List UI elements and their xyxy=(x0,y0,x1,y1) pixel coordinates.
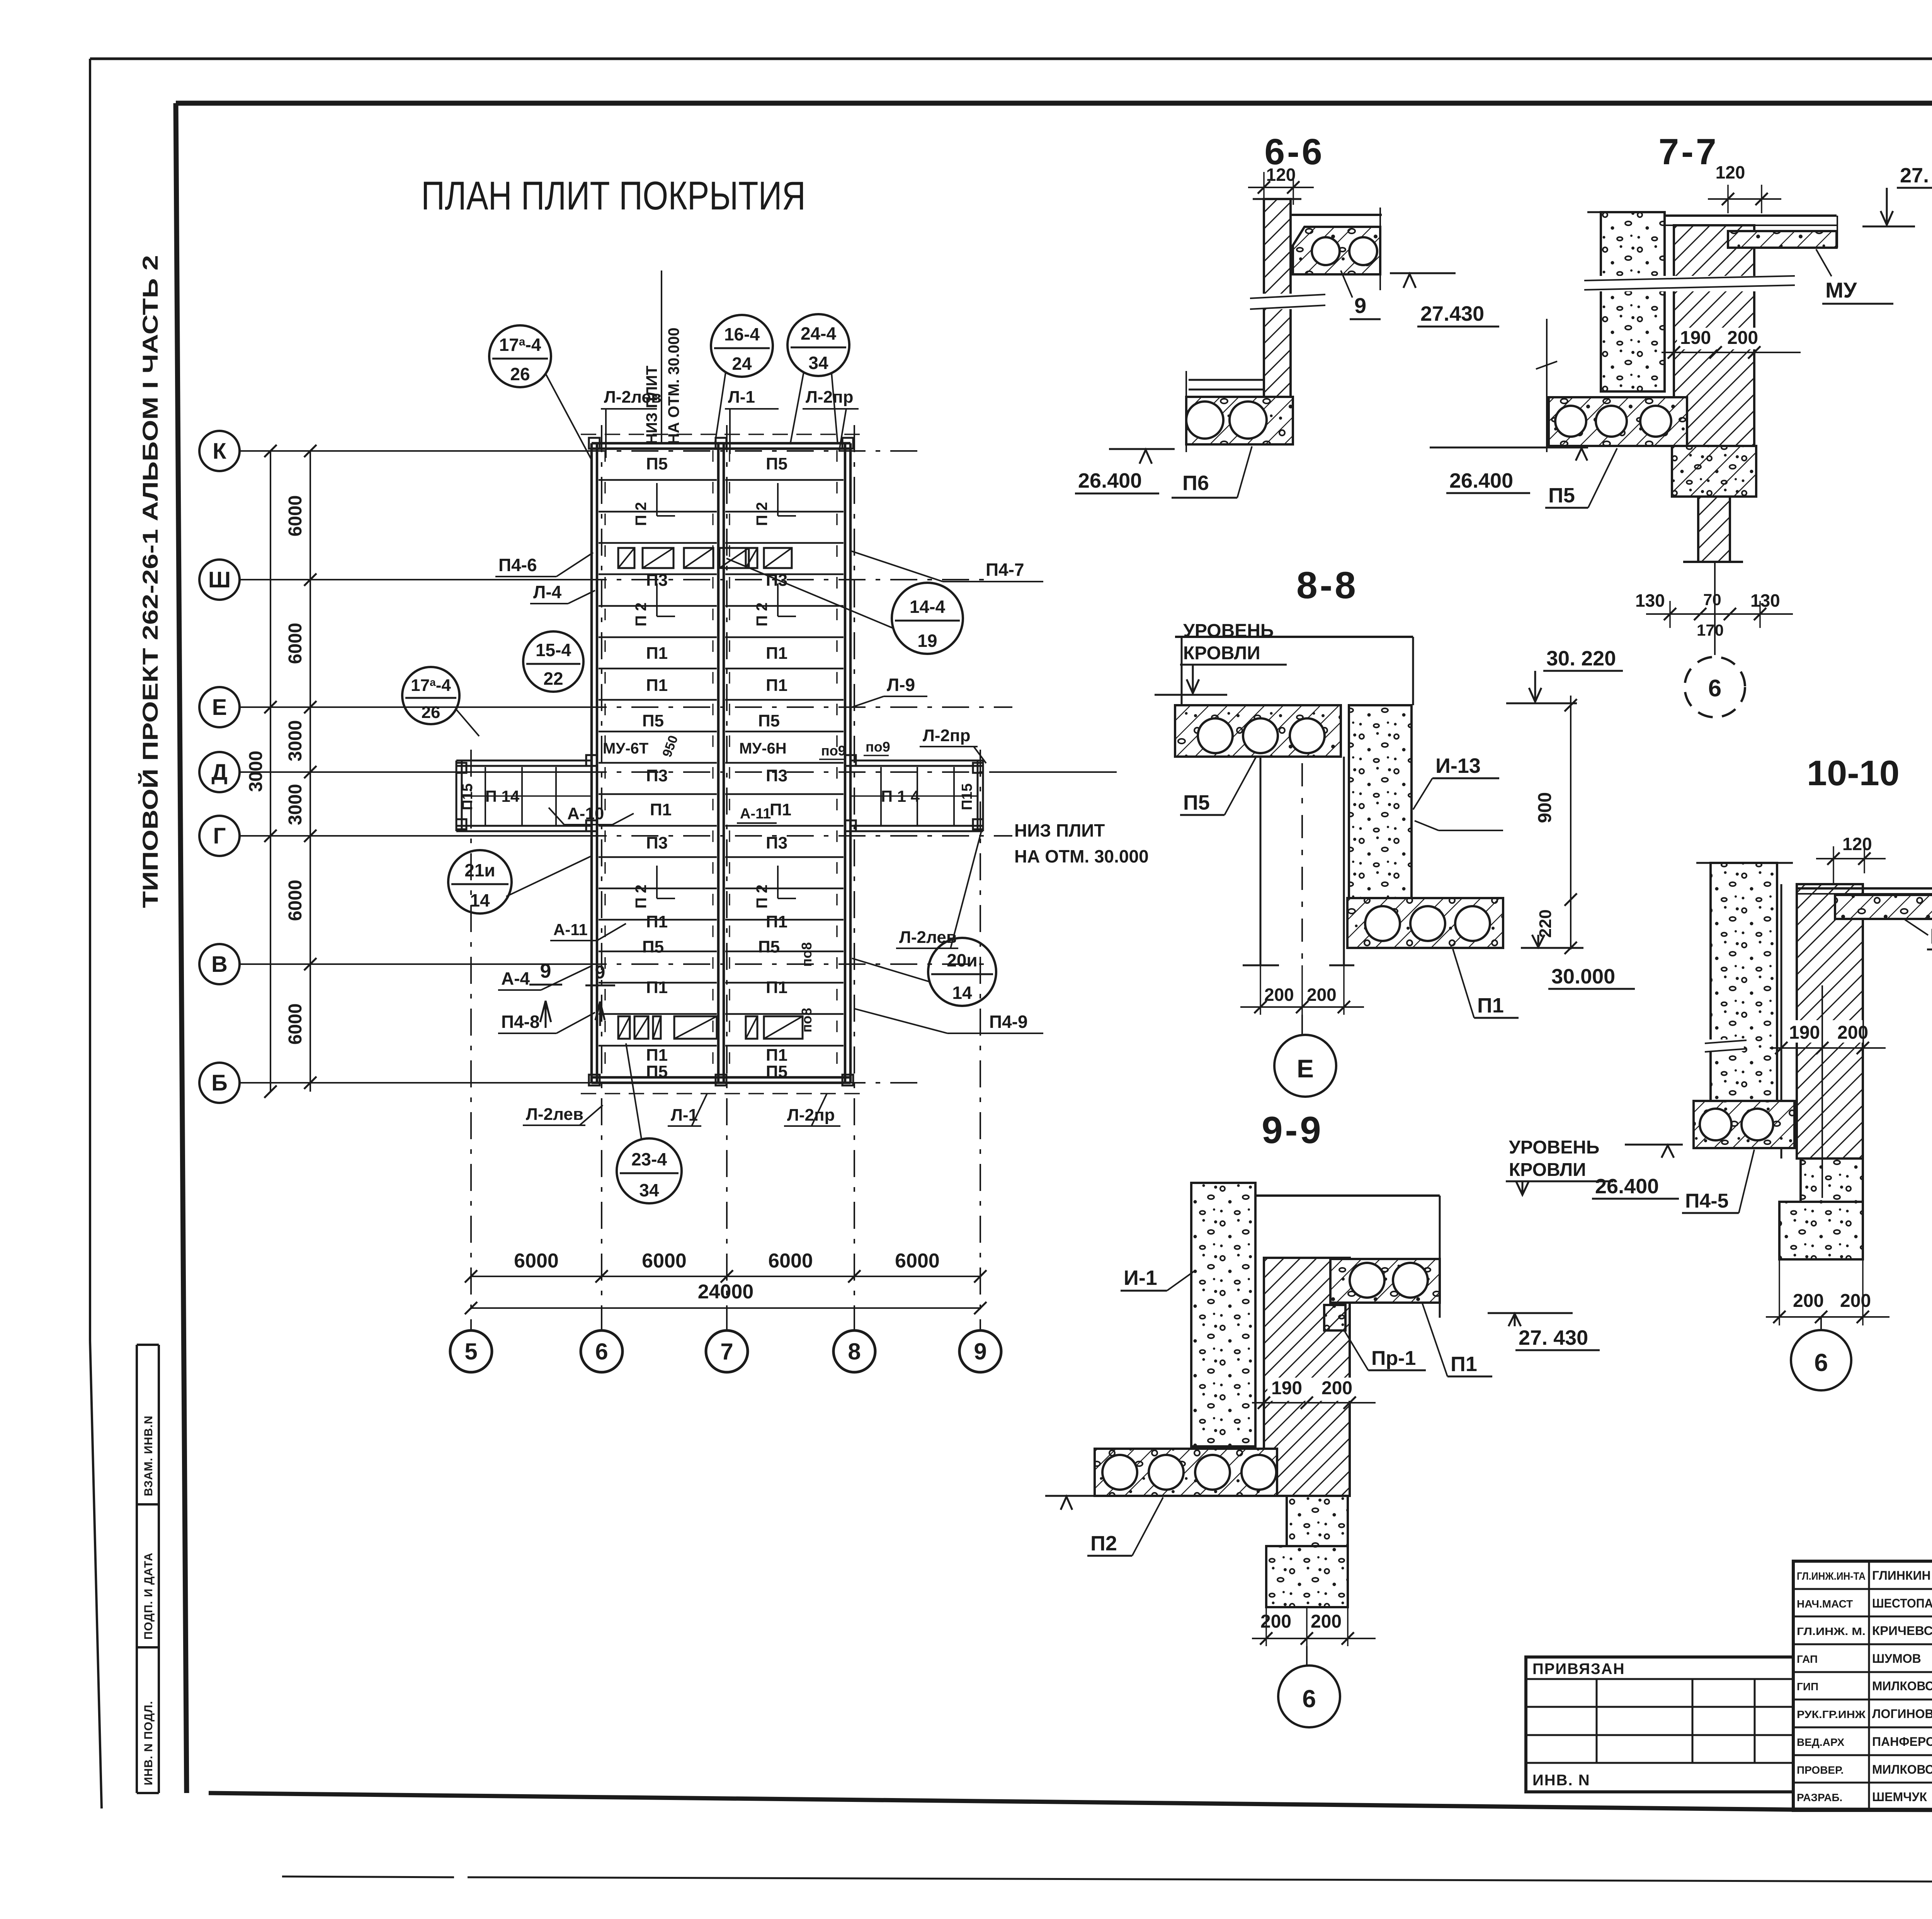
svg-text:34: 34 xyxy=(639,1180,659,1200)
section 6-6 bottom slab П6 xyxy=(1185,371,1187,452)
svg-text:НА ОТМ. 30.000: НА ОТМ. 30.000 xyxy=(1014,846,1149,866)
svg-text:ТИПОВОЙ ПРОЕКТ 262-26-1 АЛЬБОМ: ТИПОВОЙ ПРОЕКТ 262-26-1 АЛЬБОМ I ЧАСТЬ 2 xyxy=(138,255,162,908)
svg-text:6: 6 xyxy=(1302,1685,1316,1713)
svg-text:16-4: 16-4 xyxy=(724,324,760,344)
svg-text:П1: П1 xyxy=(766,644,787,663)
svg-text:9: 9 xyxy=(540,960,551,982)
svg-text:Д: Д xyxy=(211,760,227,785)
ventilation openings row 1 xyxy=(618,548,634,568)
svg-text:200: 200 xyxy=(1727,328,1758,348)
staff signature table xyxy=(1793,1561,1932,1810)
section 8-8 wall below slab xyxy=(1260,757,1262,965)
svg-text:6000: 6000 xyxy=(285,880,306,921)
svg-text:6000: 6000 xyxy=(285,495,306,537)
svg-text:ГЛ.ИНЖ.ИН-ТА: ГЛ.ИНЖ.ИН-ТА xyxy=(1797,1570,1866,1582)
dashed roof outline around plan xyxy=(581,434,861,435)
plan slab field outline (walls) xyxy=(590,443,593,1083)
svg-text:КРОВЛИ: КРОВЛИ xyxy=(1183,643,1260,663)
svg-text:200: 200 xyxy=(1321,1378,1352,1398)
plan bearing dash columns xyxy=(604,450,606,1077)
svg-text:П 2: П 2 xyxy=(633,885,650,908)
svg-text:26: 26 xyxy=(422,703,440,722)
svg-text:НИЗ ПЛИТ: НИЗ ПЛИТ xyxy=(1014,820,1105,840)
svg-text:П4-8: П4-8 xyxy=(501,1012,540,1032)
svg-text:П2: П2 xyxy=(1090,1532,1117,1555)
section 9-9 axis circle 6 xyxy=(1278,1666,1340,1727)
leader circle 14-4/19 xyxy=(892,583,963,654)
svg-text:П5: П5 xyxy=(646,1062,668,1081)
svg-text:6000: 6000 xyxy=(285,623,306,664)
svg-text:П1: П1 xyxy=(650,800,672,819)
svg-text:П1: П1 xyxy=(646,644,668,663)
svg-text:Л-2пр: Л-2пр xyxy=(923,726,970,745)
svg-text:19: 19 xyxy=(917,631,937,651)
svg-text:П 2: П 2 xyxy=(753,602,770,626)
leader circle 20и/14 xyxy=(928,938,996,1006)
plan corner column squares xyxy=(589,438,600,449)
svg-text:200: 200 xyxy=(1837,1022,1868,1043)
svg-text:П1: П1 xyxy=(646,1046,668,1065)
svg-text:6: 6 xyxy=(1708,675,1721,702)
svg-text:П4-6: П4-6 xyxy=(498,555,537,575)
section 6-6 level 27.430 xyxy=(1390,272,1456,274)
leader circle 15-4/22 xyxy=(523,631,583,692)
svg-text:20и: 20и xyxy=(947,950,977,970)
svg-text:190: 190 xyxy=(1789,1022,1820,1043)
svg-text:7-7: 7-7 xyxy=(1658,131,1718,172)
svg-text:МИЛКОВСКИЙ: МИЛКОВСКИЙ xyxy=(1872,1762,1932,1776)
leader circle 17a-4/26 left xyxy=(402,667,459,724)
svg-text:220: 220 xyxy=(1536,909,1555,937)
section 8-8 level 30.000 xyxy=(1521,947,1583,949)
svg-text:МИЛКОВСКИЙ: МИЛКОВСКИЙ xyxy=(1872,1679,1932,1693)
svg-text:34: 34 xyxy=(808,353,828,373)
svg-text:УРОВЕНЬ: УРОВЕНЬ xyxy=(1509,1137,1599,1158)
section 8-8 roof top lines xyxy=(1175,636,1413,638)
svg-text:7: 7 xyxy=(720,1339,733,1364)
svg-text:6000: 6000 xyxy=(768,1250,813,1272)
svg-text:130: 130 xyxy=(1635,590,1665,611)
svg-text:3000: 3000 xyxy=(285,784,306,825)
svg-text:200: 200 xyxy=(1311,1611,1342,1632)
section 9-9 upper slab П1 xyxy=(1330,1259,1440,1303)
svg-text:П1: П1 xyxy=(766,676,787,695)
svg-text:24000: 24000 xyxy=(698,1281,754,1303)
svg-text:УРОВЕНЬ: УРОВЕНЬ xyxy=(1183,621,1274,641)
svg-text:6000: 6000 xyxy=(514,1250,559,1272)
svg-text:ГИП: ГИП xyxy=(1797,1681,1818,1693)
right wing П14/П15 xyxy=(850,760,983,762)
section 8-8 concrete pier И-13 xyxy=(1349,705,1412,898)
svg-text:по8: по8 xyxy=(799,1008,815,1033)
svg-text:П5: П5 xyxy=(646,454,668,473)
section 7-7 top slab lines xyxy=(1665,214,1837,217)
svg-text:23-4: 23-4 xyxy=(631,1149,667,1169)
svg-text:П4-7: П4-7 xyxy=(986,560,1024,580)
svg-text:30.000: 30.000 xyxy=(1551,965,1615,988)
leader circle 17a-4/26 top xyxy=(489,325,551,387)
svg-text:П4-9: П4-9 xyxy=(989,1012,1028,1032)
svg-text:И-13: И-13 xyxy=(1435,754,1481,777)
svg-text:26.400: 26.400 xyxy=(1449,469,1513,492)
section 10-10 concrete column xyxy=(1711,863,1777,1101)
svg-text:9-9: 9-9 xyxy=(1262,1109,1323,1151)
svg-text:27. 430: 27. 430 xyxy=(1519,1326,1588,1349)
svg-text:ШЕМЧУК: ШЕМЧУК xyxy=(1872,1790,1927,1804)
svg-text:ШЕСТОПАЛОВ: ШЕСТОПАЛОВ xyxy=(1872,1596,1932,1610)
svg-text:П1: П1 xyxy=(766,978,787,997)
svg-text:П6: П6 xyxy=(1182,471,1209,495)
section 7-7 break lines across column and wall xyxy=(1584,276,1795,291)
svg-text:27. 650: 27. 650 xyxy=(1900,164,1932,187)
svg-text:П1: П1 xyxy=(646,978,668,997)
section 6-6 slab with cores xyxy=(1293,227,1380,274)
svg-text:КРИЧЕВСКИЙ: КРИЧЕВСКИЙ xyxy=(1872,1624,1932,1638)
svg-text:3000: 3000 xyxy=(246,751,266,792)
svg-text:6000: 6000 xyxy=(285,1004,306,1045)
svg-text:НАЧ.МАСТ: НАЧ.МАСТ xyxy=(1797,1598,1853,1610)
svg-text:П3: П3 xyxy=(646,834,668,852)
svg-text:П5: П5 xyxy=(758,937,780,956)
svg-text:ПОДП. И ДАТА: ПОДП. И ДАТА xyxy=(142,1552,155,1640)
section 10-10 slab with cores xyxy=(1694,1101,1794,1148)
svg-text:А-4: А-4 xyxy=(501,968,530,988)
svg-text:27.430: 27.430 xyxy=(1420,302,1484,325)
svg-text:П15: П15 xyxy=(959,783,975,810)
svg-text:ВЕД.АРХ: ВЕД.АРХ xyxy=(1797,1736,1844,1748)
svg-text:26: 26 xyxy=(510,364,530,384)
section 9-9 dim 200 200 xyxy=(1248,1579,1248,1588)
plan slab joint lines xyxy=(599,479,717,481)
svg-text:120: 120 xyxy=(1716,162,1745,182)
svg-text:Л-2пр: Л-2пр xyxy=(787,1106,835,1125)
svg-text:ПЛАН ПЛИТ ПОКРЫТИЯ: ПЛАН ПЛИТ ПОКРЫТИЯ xyxy=(421,174,806,218)
section 10-10 МУ slab strip xyxy=(1835,895,1932,919)
svg-text:200: 200 xyxy=(1307,985,1337,1005)
svg-text:П3: П3 xyxy=(646,766,668,785)
svg-text:МУ-6Н: МУ-6Н xyxy=(739,740,787,757)
svg-text:ПРОВЕР.: ПРОВЕР. xyxy=(1797,1764,1844,1776)
svg-text:3000: 3000 xyxy=(285,720,306,762)
svg-text:21и: 21и xyxy=(464,860,495,880)
section 7-7 axis circle 6 xyxy=(1685,657,1745,717)
section 9-9 masonry wall xyxy=(1264,1258,1350,1496)
svg-text:8-8: 8-8 xyxy=(1296,564,1358,606)
bottom dimension line 6000 x4 xyxy=(471,1276,980,1277)
left margin stamp boxes xyxy=(136,1345,138,1793)
svg-text:ПРИВЯЗАН: ПРИВЯЗАН xyxy=(1532,1660,1625,1677)
svg-text:П5: П5 xyxy=(766,454,787,473)
section 7-7 МУ slab strip xyxy=(1728,231,1837,248)
svg-text:6: 6 xyxy=(1814,1349,1828,1376)
section 10-10 axis circle 6 xyxy=(1791,1330,1851,1390)
svg-text:9: 9 xyxy=(1354,293,1366,318)
section 6-6 level 26.400 xyxy=(1109,448,1175,450)
svg-text:П15: П15 xyxy=(459,783,476,810)
svg-text:РАЗРАБ.: РАЗРАБ. xyxy=(1797,1791,1842,1803)
section 9-9 Пр-1 block xyxy=(1324,1305,1345,1330)
svg-text:П 2: П 2 xyxy=(633,502,650,526)
svg-text:И-1: И-1 xyxy=(1124,1266,1157,1290)
leader circle 24-4/34 xyxy=(787,314,849,376)
svg-text:190: 190 xyxy=(1680,328,1711,348)
svg-text:МУ-6Т: МУ-6Т xyxy=(603,740,648,757)
section 9-9 lower slab П2 xyxy=(1095,1449,1277,1496)
svg-text:Л-9: Л-9 xyxy=(887,675,915,695)
svg-text:П1: П1 xyxy=(1477,994,1504,1017)
svg-text:ГЛИНКИН: ГЛИНКИН xyxy=(1872,1569,1931,1582)
svg-text:Е: Е xyxy=(1297,1054,1314,1083)
svg-text:П4-5: П4-5 xyxy=(1685,1190,1729,1212)
section 6-6 top slab lines xyxy=(1291,214,1382,216)
svg-text:26.400: 26.400 xyxy=(1595,1175,1659,1198)
svg-text:П1: П1 xyxy=(646,676,668,695)
svg-text:200: 200 xyxy=(1264,985,1294,1005)
svg-text:В: В xyxy=(211,952,228,977)
column number circles xyxy=(450,1330,492,1372)
svg-text:НИЗ ПЛИТ: НИЗ ПЛИТ xyxy=(643,366,660,444)
svg-text:170: 170 xyxy=(1697,621,1724,639)
svg-text:24-4: 24-4 xyxy=(801,323,836,344)
svg-text:Е: Е xyxy=(212,695,227,720)
svg-text:ШУМОВ: ШУМОВ xyxy=(1872,1652,1921,1666)
section 9-9 concrete column И-1 xyxy=(1191,1183,1255,1446)
svg-text:НА ОТМ. 30.000: НА ОТМ. 30.000 xyxy=(665,328,682,444)
svg-text:Л-4: Л-4 xyxy=(533,582,562,602)
leader circle 21и/14 xyxy=(448,850,512,914)
svg-text:МУ: МУ xyxy=(1825,278,1857,302)
svg-text:15-4: 15-4 xyxy=(536,640,571,660)
section 9-9 level mark left of П2 xyxy=(1045,1495,1095,1497)
svg-text:П 2: П 2 xyxy=(753,502,770,526)
svg-text:ПАНФЕРОВ: ПАНФЕРОВ xyxy=(1872,1735,1932,1749)
svg-text:6000: 6000 xyxy=(895,1250,940,1272)
svg-text:П3: П3 xyxy=(766,766,787,785)
svg-text:70: 70 xyxy=(1703,590,1721,609)
leader circle 23-4/34 xyxy=(617,1138,682,1203)
svg-text:Л-2лев: Л-2лев xyxy=(526,1105,583,1124)
section 8-8 axis circle Е xyxy=(1274,1035,1336,1097)
section 10-10 masonry wall xyxy=(1797,884,1863,1159)
svg-text:ЛОГИНОВА: ЛОГИНОВА xyxy=(1872,1707,1932,1721)
svg-text:120: 120 xyxy=(1842,834,1872,854)
svg-text:П5: П5 xyxy=(642,711,664,730)
section 9-9 top line and right wall xyxy=(1255,1194,1440,1197)
section 10-10 wall strip xyxy=(1781,884,1782,1159)
svg-text:200: 200 xyxy=(1793,1291,1824,1311)
section 8-8 dim 900 220 xyxy=(1570,696,1571,949)
section 8-8 upper slab П5 xyxy=(1175,705,1341,757)
svg-text:КРОВЛИ: КРОВЛИ xyxy=(1509,1160,1586,1180)
section 10-10 console xyxy=(1801,1159,1863,1202)
section 7-7 slab П5 with cores xyxy=(1549,397,1687,446)
svg-text:А-11: А-11 xyxy=(553,920,588,939)
svg-text:26.400: 26.400 xyxy=(1078,469,1142,492)
svg-text:по9: по9 xyxy=(866,739,890,755)
svg-text:К: К xyxy=(213,439,226,464)
svg-text:10-10: 10-10 xyxy=(1807,754,1900,793)
svg-text:П1: П1 xyxy=(646,912,668,931)
left wing П14/П15 xyxy=(456,760,592,762)
section 7-7 left extension line xyxy=(1546,319,1548,452)
svg-text:14: 14 xyxy=(952,983,972,1003)
svg-text:П1: П1 xyxy=(1451,1352,1477,1376)
svg-text:Л-2лев: Л-2лев xyxy=(899,928,957,947)
svg-text:по8: по8 xyxy=(799,942,815,967)
section 9-9 dim 190 200 xyxy=(1267,1378,1364,1401)
svg-text:9: 9 xyxy=(595,962,605,983)
ventilation openings row 2 xyxy=(618,1016,630,1039)
svg-text:14-4: 14-4 xyxy=(910,597,945,617)
svg-text:22: 22 xyxy=(543,669,563,689)
svg-text:200: 200 xyxy=(1840,1291,1871,1311)
svg-text:П1: П1 xyxy=(770,800,791,819)
svg-text:ИНВ. N: ИНВ. N xyxy=(1532,1772,1590,1789)
svg-text:ГАП: ГАП xyxy=(1797,1653,1818,1665)
svg-text:по9: по9 xyxy=(821,743,846,759)
section 7-7 masonry wall xyxy=(1674,225,1754,446)
section 10-10 top slab lines xyxy=(1797,887,1932,890)
svg-text:П5: П5 xyxy=(1183,791,1210,814)
svg-text:24: 24 xyxy=(732,354,752,374)
leader circle 16-4/24 xyxy=(711,315,773,377)
inner frame xyxy=(176,101,1932,106)
section 9-9 level 27.430 xyxy=(1488,1312,1573,1314)
svg-text:30. 220: 30. 220 xyxy=(1546,647,1616,670)
svg-text:П5: П5 xyxy=(642,937,664,956)
sheet outer border xyxy=(90,58,1932,60)
vertical column axis lines xyxy=(470,750,472,1330)
section 6-6 wall xyxy=(1264,199,1291,397)
svg-text:14: 14 xyxy=(470,890,490,910)
svg-text:6: 6 xyxy=(595,1339,608,1364)
svg-text:П5: П5 xyxy=(766,1062,787,1081)
svg-text:РУК.ГР.ИНЖ: РУК.ГР.ИНЖ xyxy=(1797,1708,1866,1720)
svg-text:А-11: А-11 xyxy=(740,806,771,822)
svg-text:6000: 6000 xyxy=(642,1250,687,1272)
svg-text:8: 8 xyxy=(848,1339,861,1364)
svg-text:П 2: П 2 xyxy=(633,602,650,626)
svg-text:П 2: П 2 xyxy=(753,885,770,908)
svg-text:ГЛ.ИНЖ. М.: ГЛ.ИНЖ. М. xyxy=(1797,1625,1866,1637)
section 9-9 console xyxy=(1287,1496,1348,1546)
svg-text:5: 5 xyxy=(464,1339,477,1364)
bottom margin dashed line xyxy=(282,1876,454,1877)
svg-text:А-10: А-10 xyxy=(567,804,604,823)
section 7-7 console xyxy=(1672,446,1756,497)
svg-text:П3: П3 xyxy=(766,834,787,852)
privyazan box xyxy=(1526,1657,1793,1792)
svg-text:Г: Г xyxy=(213,823,226,849)
svg-text:П1: П1 xyxy=(766,912,787,931)
section 8-8 lower slab П1 xyxy=(1347,898,1503,948)
svg-text:Ш: Ш xyxy=(208,567,231,592)
svg-text:200: 200 xyxy=(1260,1611,1291,1632)
svg-text:Л-2пр: Л-2пр xyxy=(806,388,853,407)
svg-text:П5: П5 xyxy=(758,711,780,730)
left vertical dimension lines xyxy=(270,451,271,1092)
svg-text:П1: П1 xyxy=(766,1046,787,1065)
svg-text:900: 900 xyxy=(1535,792,1555,823)
svg-text:ВЗАМ. ИНВ.N: ВЗАМ. ИНВ.N xyxy=(142,1415,155,1496)
svg-text:ИНВ. N ПОДЛ.: ИНВ. N ПОДЛ. xyxy=(142,1701,155,1785)
horizontal axis lines xyxy=(240,450,580,452)
svg-text:П5: П5 xyxy=(1548,484,1575,507)
bottom dimension line 24000 xyxy=(471,1307,980,1309)
axis letter circles xyxy=(199,431,240,471)
svg-text:Л-1: Л-1 xyxy=(728,388,755,407)
section 10-10 dim 190 200 xyxy=(1785,1020,1862,1043)
svg-text:190: 190 xyxy=(1271,1378,1302,1398)
svg-text:Пр-1: Пр-1 xyxy=(1371,1347,1416,1369)
section 7-7 concrete column xyxy=(1601,212,1665,391)
svg-text:9: 9 xyxy=(974,1339,986,1364)
svg-text:МУ: МУ xyxy=(1930,924,1932,948)
section 7-7 dim 190 200 xyxy=(1677,328,1777,349)
svg-text:Б: Б xyxy=(211,1070,228,1096)
